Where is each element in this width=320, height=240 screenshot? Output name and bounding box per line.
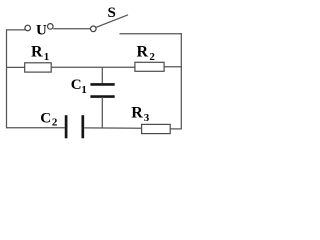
svg-text:S: S <box>108 5 116 21</box>
switch S blade <box>96 15 128 27</box>
svg-text:C: C <box>71 77 82 93</box>
switch S pivot circle <box>91 26 97 32</box>
svg-text:2: 2 <box>149 51 155 63</box>
capacitor C2 right plate <box>81 115 84 138</box>
capacitor C1 bottom plate <box>90 95 114 98</box>
capacitor C2 left plate <box>65 115 68 138</box>
svg-text:U: U <box>36 23 47 39</box>
svg-text:R: R <box>31 44 43 61</box>
node U terminal right (circle) <box>48 24 54 30</box>
svg-text:1: 1 <box>81 84 87 96</box>
capacitor C1 top plate <box>90 83 114 86</box>
wire C1 top leg <box>101 67 103 84</box>
node U terminal left (circle) <box>25 25 31 31</box>
wire bottom row left segment <box>6 127 65 129</box>
wire R2 to right vertical <box>164 66 182 68</box>
svg-text:C: C <box>40 110 51 126</box>
wire C1 bottom leg <box>101 97 103 128</box>
resistor R1 (box) <box>25 63 52 72</box>
wire C2 to R3 (through node C1 bottom) <box>84 127 141 129</box>
svg-text:R: R <box>131 105 143 122</box>
wire middle row left segment <box>6 66 25 68</box>
svg-text:R: R <box>137 44 149 61</box>
svg-text:1: 1 <box>44 51 50 63</box>
wire U terminal to switch <box>53 28 90 30</box>
svg-text:2: 2 <box>52 117 58 129</box>
wire right vertical <box>180 33 182 129</box>
wire left vertical <box>6 30 8 129</box>
svg-text:3: 3 <box>144 112 150 124</box>
wire switch fixed contact to top-right corner <box>120 33 182 35</box>
wire middle row between R1 and R2 (through node C1 top) <box>51 66 135 68</box>
resistor R2 (box) <box>135 62 164 71</box>
wire top-left horizontal <box>6 29 25 31</box>
wire R3 to bottom-right corner <box>170 128 182 130</box>
resistor R3 (box) <box>142 124 171 133</box>
